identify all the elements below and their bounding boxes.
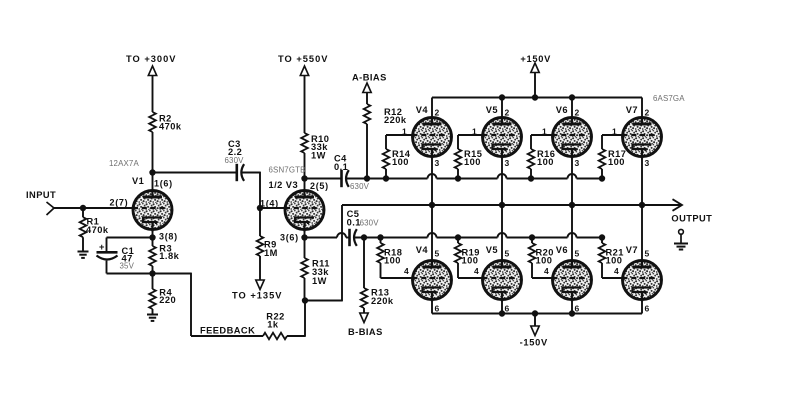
node -150V bus V6 <box>569 310 575 316</box>
svg-text:12AX7A: 12AX7A <box>109 159 139 168</box>
wire V7 plate lead <box>641 98 643 119</box>
node V1 plate junction <box>149 169 155 175</box>
node R11/R22 junction <box>302 297 308 303</box>
wire V5 plate lead <box>501 98 503 119</box>
svg-text:B-BIAS: B-BIAS <box>348 327 383 337</box>
power arrow +550V <box>300 66 308 76</box>
svg-text:1W: 1W <box>311 151 326 161</box>
wire A bus segment 3 <box>507 178 568 180</box>
wire R10 to V3 plate junction <box>304 153 306 179</box>
wire R21 bottom lead <box>601 263 603 278</box>
wire R4 bottom lead <box>152 309 154 315</box>
chassis ground at output <box>674 229 688 249</box>
wire R14 bottom lead <box>385 169 387 179</box>
svg-text:1(6): 1(6) <box>154 179 173 189</box>
svg-text:0.1: 0.1 <box>334 162 348 172</box>
svg-text:1k: 1k <box>267 320 279 330</box>
svg-text:5: 5 <box>435 249 440 259</box>
wire V4 lower cathode lead <box>431 302 433 314</box>
svg-text:1M: 1M <box>264 248 278 258</box>
wire A bus segment 1 <box>346 178 428 180</box>
resistor R4 <box>149 289 156 309</box>
wire feedback vertical <box>190 273 192 336</box>
node V3 plate junction <box>301 175 307 181</box>
svg-text:470k: 470k <box>86 225 109 235</box>
wire V7 lower cathode lead <box>641 302 643 314</box>
svg-text:100: 100 <box>464 157 481 167</box>
svg-text:4: 4 <box>474 266 479 276</box>
triode V5 bottom half <box>483 259 522 302</box>
wire R11 top lead <box>304 238 306 259</box>
node R17 on A bus <box>599 175 605 181</box>
wire V3 plate to C4 <box>305 178 342 180</box>
wire R13 bottom lead <box>363 308 365 313</box>
wire output riser to output bus <box>341 205 343 301</box>
resistor R21 <box>599 243 606 263</box>
svg-text:2: 2 <box>505 108 510 118</box>
svg-text:A-BIAS: A-BIAS <box>352 73 387 83</box>
svg-text:V1: V1 <box>132 176 144 186</box>
wire R1 top lead <box>82 208 84 217</box>
svg-text:6: 6 <box>435 304 440 314</box>
svg-text:3: 3 <box>435 158 440 168</box>
triode V3 <box>285 189 324 232</box>
wire V3 plate lead <box>304 179 306 193</box>
svg-text:OUTPUT: OUTPUT <box>671 214 712 224</box>
wire plate bus <box>432 97 642 99</box>
resistor R9 <box>257 236 264 256</box>
svg-text:6SN7GTB: 6SN7GTB <box>269 166 306 175</box>
svg-text:4: 4 <box>614 266 619 276</box>
resistor R19 <box>455 243 462 263</box>
node plate bus +150V <box>532 94 538 100</box>
wire -150V stem <box>534 314 536 327</box>
wire R20 top lead <box>531 238 533 244</box>
triode V5 top half <box>483 116 522 159</box>
svg-text:3(6): 3(6) <box>280 233 299 243</box>
wire B bus segment 2 <box>437 237 498 239</box>
wire V1 cathode lead <box>152 231 154 238</box>
wire A-BIAS to R12 <box>366 93 368 105</box>
node -150V bus stem <box>532 310 538 316</box>
wire hop over feedback riser <box>337 233 346 238</box>
svg-text:V7: V7 <box>626 245 638 255</box>
wire +150V to plate bus <box>534 73 536 98</box>
wire B bus hop at V4 <box>428 233 437 238</box>
svg-text:2(5): 2(5) <box>310 181 329 191</box>
node R12 on A bus <box>364 175 370 181</box>
svg-text:220k: 220k <box>371 296 394 306</box>
wire riser R22 to R11 node <box>304 301 306 337</box>
triode V4 top half <box>413 116 452 159</box>
ground below R4 <box>147 315 158 321</box>
node R18 on B bus <box>377 234 383 240</box>
svg-text:V6: V6 <box>556 105 568 115</box>
svg-text:100: 100 <box>392 157 409 167</box>
resistor R1 <box>80 217 87 237</box>
wire R14 top lead <box>385 135 387 149</box>
wire B bus segment 1 <box>355 237 428 239</box>
node output bus V6 <box>569 202 575 208</box>
svg-text:2: 2 <box>575 108 580 118</box>
wire V4 lower plate lead <box>431 205 433 260</box>
node junction input/R1 <box>80 205 86 211</box>
node R3/R4/feedback junction <box>149 270 155 276</box>
svg-text:630V: 630V <box>225 156 245 165</box>
wire R19 top lead <box>457 238 459 244</box>
resistor R3 <box>149 246 156 266</box>
svg-text:2: 2 <box>435 108 440 118</box>
wire V1 plate lead <box>152 173 154 193</box>
resistor R10 <box>301 133 308 153</box>
svg-text:V5: V5 <box>486 105 498 115</box>
wire V7 cathode to output bus <box>641 159 643 206</box>
svg-text:100: 100 <box>537 157 554 167</box>
svg-text:1.8k: 1.8k <box>159 251 179 261</box>
wire V6 cathode to output bus <box>571 159 573 206</box>
svg-text:-150V: -150V <box>520 338 548 348</box>
wire R1 bottom lead <box>82 237 84 251</box>
node R20 on B bus <box>529 234 535 240</box>
wire V6 lower cathode lead <box>571 302 573 314</box>
wire V5 lower grid wire <box>458 277 483 279</box>
svg-text:V4: V4 <box>416 245 429 255</box>
wire R18 top lead <box>380 238 382 244</box>
wire B bus segment 3 <box>507 237 568 239</box>
svg-text:V7: V7 <box>626 105 638 115</box>
wire V4 plate lead <box>431 98 433 119</box>
svg-text:6AS7GA: 6AS7GA <box>653 94 685 103</box>
svg-text:2: 2 <box>645 108 650 118</box>
triode V6 top half <box>553 116 592 159</box>
power arrow +300V <box>148 66 156 76</box>
wire grid drop <box>259 172 261 208</box>
resistor R13 <box>361 288 368 308</box>
svg-text:3: 3 <box>645 158 650 168</box>
wire R4 top lead <box>152 274 154 290</box>
node plate bus V6 <box>569 94 575 100</box>
wire R15 top lead <box>457 135 459 149</box>
wire R12 to A bus <box>366 124 368 179</box>
triode V7 bottom half <box>623 259 662 302</box>
svg-text:100: 100 <box>606 256 623 266</box>
wire V3 cathode to hop <box>305 237 338 239</box>
arrow OUTPUT <box>673 199 683 211</box>
node INPUT terminal <box>47 202 55 215</box>
wire R9 top lead <box>259 208 261 236</box>
node R16 on A bus <box>528 175 534 181</box>
svg-text:6: 6 <box>645 304 650 314</box>
wire C3 to grid corner <box>242 172 261 174</box>
svg-text:2(7): 2(7) <box>110 198 129 208</box>
svg-text:100: 100 <box>608 157 625 167</box>
node R13 on B bus <box>361 234 367 240</box>
node plate bus V5 <box>499 94 505 100</box>
wire output bus <box>342 204 681 206</box>
resistor R16 <box>528 149 535 169</box>
svg-text:V5: V5 <box>486 245 498 255</box>
wire R17 bottom lead <box>601 169 603 179</box>
resistor R22 <box>263 333 287 340</box>
wire R21 top lead <box>601 238 603 244</box>
node R14 on A bus <box>383 175 389 181</box>
svg-text:100: 100 <box>536 256 553 266</box>
node output bus V5 <box>499 202 505 208</box>
svg-text:100: 100 <box>384 256 401 266</box>
wire B bus hop at V6 <box>568 233 577 238</box>
svg-text:35V: 35V <box>120 261 135 270</box>
svg-text:100: 100 <box>462 256 479 266</box>
svg-text:+150V: +150V <box>520 54 551 64</box>
wire R13 top lead <box>363 238 365 289</box>
node V1 cathode junction 3(8) <box>149 234 155 240</box>
power arrow to +135V <box>256 280 264 290</box>
svg-text:3(8): 3(8) <box>159 232 178 242</box>
svg-text:5: 5 <box>645 249 650 259</box>
node R19 on B bus <box>455 234 461 240</box>
wire R17 top lead <box>601 135 603 149</box>
capacitor C1 <box>97 252 118 259</box>
svg-text:220k: 220k <box>384 115 407 125</box>
svg-text:FEEDBACK: FEEDBACK <box>200 326 255 336</box>
wire B bus hop at V5 <box>498 233 507 238</box>
svg-text:1(4): 1(4) <box>260 199 279 209</box>
wire R18 bottom lead <box>380 263 382 278</box>
resistor R14 <box>383 149 390 169</box>
svg-text:470k: 470k <box>159 122 182 132</box>
wire V7 lower grid wire <box>602 277 623 279</box>
svg-text:5: 5 <box>575 249 580 259</box>
wire C1 top lead <box>106 238 108 253</box>
wire V4 grid wire <box>386 134 413 136</box>
resistor R11 <box>301 258 308 278</box>
node R15 on A bus <box>455 175 461 181</box>
wire V6 grid wire <box>531 134 553 136</box>
wire V5 cathode to output bus <box>501 159 503 206</box>
svg-text:630V: 630V <box>350 182 370 191</box>
wire hop to C5 <box>346 237 350 239</box>
wire V5 lower plate lead <box>501 205 503 260</box>
svg-text:4: 4 <box>404 266 409 276</box>
wire V6 lower plate lead <box>571 205 573 260</box>
svg-text:4: 4 <box>544 266 549 276</box>
wire C1 to R3/R4 junction <box>107 273 153 275</box>
wire V6 lower grid wire <box>532 277 553 279</box>
wire V5 grid wire <box>458 134 483 136</box>
wire +550V to R10 <box>304 76 306 134</box>
svg-text:V6: V6 <box>556 245 568 255</box>
svg-text:V4: V4 <box>416 105 429 115</box>
wire R9 bottom lead <box>259 256 261 280</box>
resistor R12 <box>364 104 371 124</box>
wire R19 bottom lead <box>457 263 459 278</box>
wire V3 cathode lead <box>304 231 306 238</box>
power arrow A-BIAS <box>363 83 371 93</box>
node V3 cathode junction 3(6) <box>301 234 307 240</box>
power arrow B-BIAS <box>360 313 368 323</box>
svg-text:TO +550V: TO +550V <box>278 54 328 64</box>
wire V5 lower cathode lead <box>501 302 503 314</box>
resistor R17 <box>599 149 606 169</box>
capacitor C3 <box>237 164 244 181</box>
wire A bus segment 4 <box>577 178 603 180</box>
power arrow +150V <box>531 63 539 73</box>
triode V1 <box>133 189 172 232</box>
node V3 grid junction 1(4) <box>257 205 263 211</box>
wire R3 bottom lead <box>152 266 154 274</box>
resistor R20 <box>529 243 536 263</box>
svg-text:220: 220 <box>159 295 176 305</box>
svg-text:6: 6 <box>505 304 510 314</box>
svg-text:6: 6 <box>575 304 580 314</box>
ground below R1 <box>78 252 89 258</box>
wire V4 cathode to output bus <box>431 159 433 206</box>
wire A bus hop at V4 <box>428 174 437 179</box>
resistor R15 <box>455 149 462 169</box>
wire R2 to V1 plate junction <box>152 132 154 173</box>
wire feedback horizontal from junction <box>153 273 192 275</box>
wire V7 grid wire <box>602 134 623 136</box>
wire A bus hop at V6 <box>568 174 577 179</box>
wire V7 lower plate lead <box>641 205 643 260</box>
wire R3 top lead <box>152 238 154 247</box>
wire -150V bus <box>432 313 642 315</box>
wire input to grid of V1 <box>54 207 134 209</box>
wire V4 lower grid wire <box>381 277 413 279</box>
resistor R18 <box>377 243 384 263</box>
wire cathode to C1 <box>107 237 153 239</box>
svg-text:3: 3 <box>505 158 510 168</box>
svg-text:1W: 1W <box>312 276 327 286</box>
wire A bus hop at V5 <box>498 174 507 179</box>
capacitor C5 <box>350 229 357 246</box>
wire R16 bottom lead <box>530 169 532 179</box>
wire +300V to R2 <box>152 76 154 113</box>
triode V4 bottom half <box>413 259 452 302</box>
svg-text:TO +135V: TO +135V <box>232 291 282 301</box>
resistor R2 <box>149 112 156 132</box>
triode V7 top half <box>623 116 662 159</box>
svg-text:1/2 V3: 1/2 V3 <box>269 180 299 190</box>
wire R22 to riser <box>287 335 305 337</box>
svg-text:3: 3 <box>575 158 580 168</box>
node output bus V4 <box>429 202 435 208</box>
wire B bus segment 4 <box>577 237 603 239</box>
wire A bus segment 2 <box>437 178 498 180</box>
capacitor C4 <box>342 170 349 187</box>
wire R16 top lead <box>530 135 532 149</box>
wire feedback to R22 <box>191 335 263 337</box>
wire R11 bottom lead <box>304 278 306 301</box>
node output bus V7 <box>639 202 645 208</box>
triode V6 bottom half <box>553 259 592 302</box>
wire R15 bottom lead <box>457 169 459 179</box>
wire V6 plate lead <box>571 98 573 119</box>
node R21 on B bus <box>599 234 605 240</box>
svg-text:630V: 630V <box>360 218 380 227</box>
wire V1 plate to C3 <box>153 172 237 174</box>
wire grid junction to V3 <box>260 207 286 209</box>
wire junction to output riser <box>305 300 342 302</box>
power arrow -150V <box>531 326 539 336</box>
svg-text:+: + <box>99 242 105 252</box>
svg-text:INPUT: INPUT <box>26 190 56 200</box>
wire R20 bottom lead <box>531 263 533 278</box>
node -150V bus V5 <box>499 310 505 316</box>
svg-text:5: 5 <box>505 249 510 259</box>
svg-text:TO +300V: TO +300V <box>126 54 176 64</box>
wire C1 bottom lead <box>106 261 108 274</box>
